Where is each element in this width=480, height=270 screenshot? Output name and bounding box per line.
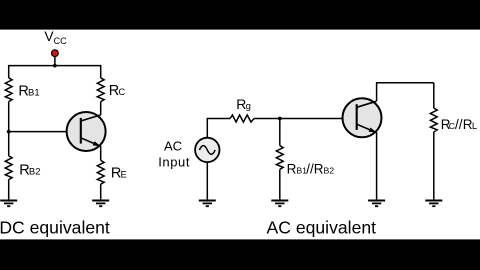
resistor RB2 <box>5 156 12 180</box>
svg-text:g: g <box>246 101 251 112</box>
resistor RC <box>97 78 104 102</box>
label RB2 <box>19 162 40 178</box>
wire node to RB1//RB2 <box>279 119 281 146</box>
label AC Input <box>158 139 190 170</box>
svg-text:E: E <box>121 170 127 181</box>
wire right rail to RC//RL <box>433 83 435 108</box>
wire collector up <box>376 83 378 101</box>
ground RC//RL <box>425 201 442 207</box>
resistor RB1 <box>5 78 12 102</box>
resistor RB1//RB2 <box>276 146 283 170</box>
ground RB1//RB2 <box>271 201 288 207</box>
svg-text:DC equivalent: DC equivalent <box>0 218 110 238</box>
svg-text:L: L <box>472 121 477 132</box>
wire RC to collector <box>100 102 102 115</box>
wire top rail AC <box>376 82 434 84</box>
ground RE <box>92 201 109 207</box>
wire RC//RL to ground <box>433 132 435 201</box>
svg-text://: // <box>455 117 463 132</box>
resistor RE <box>97 160 104 184</box>
svg-text:CC: CC <box>54 36 67 46</box>
wire source top <box>207 119 230 138</box>
transistor Q1 (AC) <box>343 98 382 137</box>
label RB1//RB2 <box>287 162 335 177</box>
wire base DC <box>9 131 80 133</box>
junction input node <box>278 117 282 121</box>
label RC <box>109 83 126 99</box>
junction VCC rail <box>53 64 57 68</box>
wire top rail to RC <box>100 65 102 78</box>
bottom letterbox bar <box>0 239 480 270</box>
wire base node to RB2 <box>8 132 10 156</box>
svg-text:B2: B2 <box>324 166 335 176</box>
wire source bottom to ground <box>206 162 208 200</box>
svg-text:B1: B1 <box>28 87 40 98</box>
svg-text:C: C <box>118 87 125 98</box>
AC source V1 <box>195 138 219 162</box>
resistor RC//RL <box>430 108 437 132</box>
svg-text:AC equivalent: AC equivalent <box>267 218 377 238</box>
svg-text://R: //R <box>306 162 324 177</box>
wire emitter to ground <box>376 132 378 200</box>
junction base node <box>7 130 11 134</box>
svg-text:R: R <box>287 162 297 177</box>
wire top rail DC <box>9 65 101 67</box>
wire RB1 to base node <box>8 102 10 132</box>
wire RE to ground <box>100 184 102 200</box>
svg-text:B2: B2 <box>29 166 41 177</box>
supply node VCC (red terminal) <box>52 50 59 57</box>
transistor Q1 (DC) <box>67 112 106 151</box>
wire RB2 to ground <box>8 180 10 201</box>
ground RB2 <box>0 201 17 207</box>
wire Rg to base <box>254 118 343 120</box>
wire left rail upper <box>8 65 10 78</box>
label Rg <box>236 96 251 112</box>
label RB1 <box>18 83 39 99</box>
svg-text:AC: AC <box>164 139 182 154</box>
wire emitter to RE <box>100 146 102 160</box>
ground emitter <box>368 201 385 207</box>
wire VCC stub <box>54 57 56 66</box>
svg-text:Input: Input <box>158 155 190 170</box>
top letterbox bar <box>0 0 480 30</box>
resistor Rg <box>230 115 254 122</box>
label VCC <box>44 29 67 46</box>
label RC//RL <box>441 117 477 132</box>
wire RB1//RB2 to ground <box>279 169 281 200</box>
label RE <box>111 166 127 182</box>
ground AC source <box>199 201 216 207</box>
